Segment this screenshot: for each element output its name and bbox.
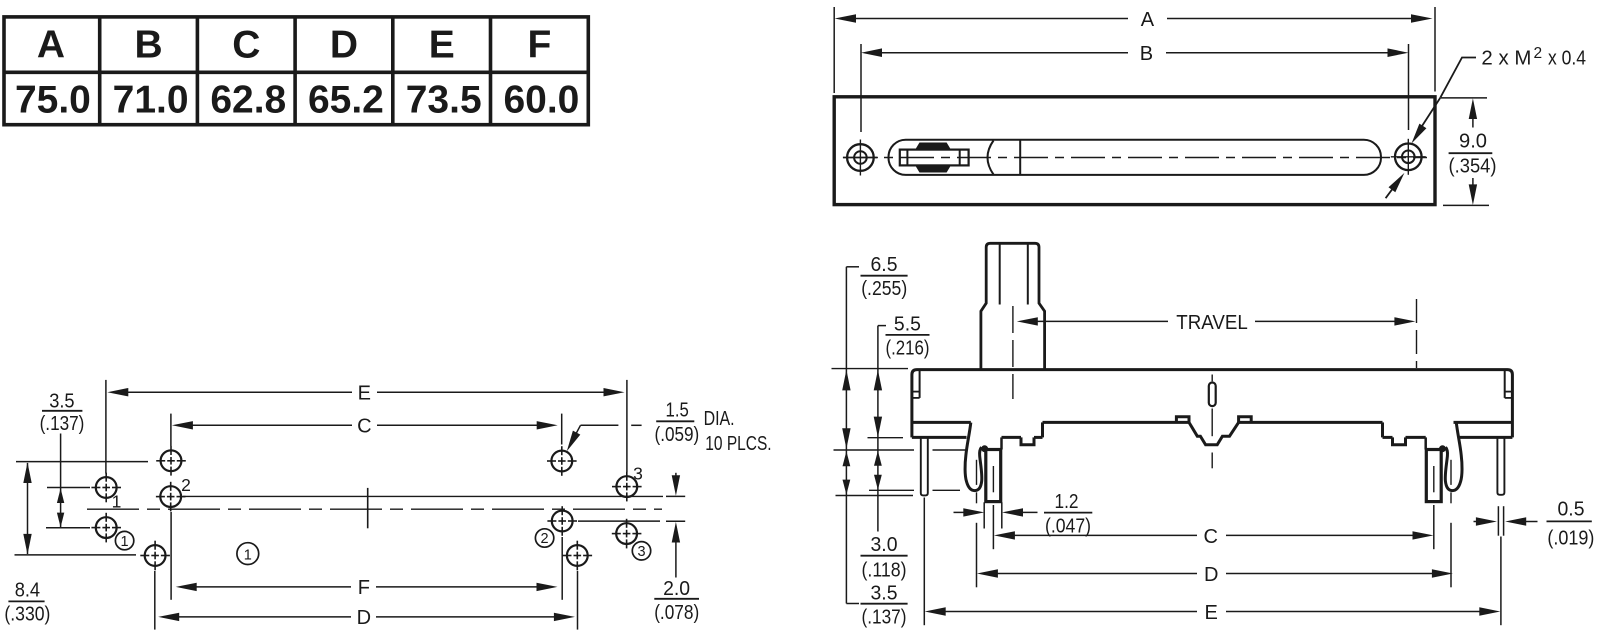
svg-text:2: 2 — [1534, 45, 1543, 62]
svg-text:D: D — [357, 607, 371, 629]
svg-text:1: 1 — [121, 534, 129, 550]
svg-text:C: C — [357, 416, 371, 438]
svg-text:A: A — [1141, 9, 1155, 31]
svg-text:62.8: 62.8 — [210, 79, 286, 122]
svg-text:1.2: 1.2 — [1055, 491, 1079, 513]
svg-text:E: E — [1205, 602, 1218, 624]
svg-text:8.4: 8.4 — [15, 579, 40, 601]
svg-text:3: 3 — [633, 463, 643, 483]
svg-text:1: 1 — [112, 492, 122, 512]
svg-text:C: C — [1203, 526, 1217, 548]
svg-text:(.078): (.078) — [654, 602, 699, 624]
svg-text:2.0: 2.0 — [663, 578, 690, 600]
svg-text:(.216): (.216) — [886, 338, 930, 360]
svg-text:F: F — [527, 24, 551, 67]
svg-text:(.047): (.047) — [1045, 516, 1091, 538]
svg-text:65.2: 65.2 — [308, 79, 384, 122]
svg-text:C: C — [232, 24, 260, 67]
svg-text:3.5: 3.5 — [49, 391, 74, 413]
svg-text:(.137): (.137) — [40, 413, 85, 435]
svg-text:D: D — [1204, 564, 1218, 586]
svg-text:TRAVEL: TRAVEL — [1176, 312, 1248, 334]
svg-text:60.0: 60.0 — [503, 79, 579, 122]
svg-text:5.5: 5.5 — [894, 314, 921, 336]
svg-text:3.5: 3.5 — [871, 582, 898, 604]
svg-text:10 PLCS.: 10 PLCS. — [705, 433, 771, 455]
svg-text:(.330): (.330) — [4, 603, 50, 625]
svg-text:F: F — [358, 577, 370, 599]
svg-text:A: A — [37, 24, 65, 67]
svg-text:(.019): (.019) — [1547, 527, 1594, 549]
svg-text:E: E — [358, 382, 371, 404]
svg-text:9.0: 9.0 — [1459, 131, 1487, 153]
svg-text:(.137): (.137) — [862, 607, 907, 629]
svg-text:1: 1 — [244, 547, 252, 563]
svg-text:73.5: 73.5 — [406, 79, 482, 122]
svg-text:75.0: 75.0 — [15, 79, 91, 122]
svg-text:71.0: 71.0 — [113, 79, 189, 122]
svg-text:D: D — [330, 24, 358, 67]
svg-text:3: 3 — [637, 544, 645, 560]
svg-text:3.0: 3.0 — [871, 534, 898, 556]
svg-text:E: E — [429, 24, 455, 67]
svg-text:1.5: 1.5 — [666, 399, 689, 421]
svg-text:2: 2 — [541, 531, 549, 547]
svg-text:6.5: 6.5 — [871, 254, 898, 276]
svg-text:DIA.: DIA. — [704, 408, 735, 430]
svg-text:B: B — [1140, 43, 1153, 65]
svg-text:(.354): (.354) — [1449, 155, 1497, 177]
svg-text:2: 2 — [181, 475, 191, 495]
svg-text:x 0.4: x 0.4 — [1548, 47, 1586, 69]
svg-text:2 x M: 2 x M — [1481, 47, 1531, 69]
svg-text:(.118): (.118) — [862, 560, 907, 582]
svg-text:(.059): (.059) — [655, 424, 700, 446]
svg-text:B: B — [135, 24, 163, 67]
svg-text:0.5: 0.5 — [1558, 499, 1585, 521]
svg-text:(.255): (.255) — [861, 278, 907, 300]
